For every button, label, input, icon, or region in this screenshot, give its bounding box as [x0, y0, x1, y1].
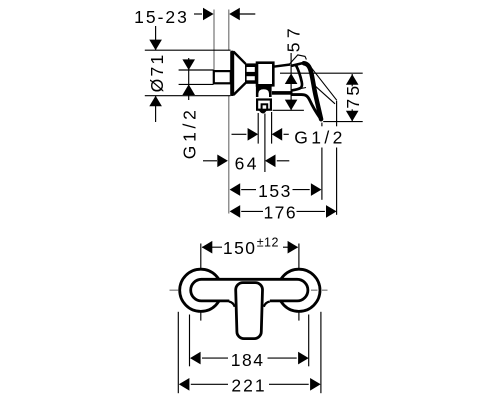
svg-text:75: 75	[343, 83, 363, 109]
svg-text:64: 64	[235, 153, 259, 173]
svg-text:57: 57	[284, 24, 304, 52]
svg-text:15-23: 15-23	[134, 7, 189, 27]
svg-text:G1/2: G1/2	[294, 128, 346, 148]
svg-text:153: 153	[258, 181, 292, 201]
svg-text:150: 150	[223, 238, 257, 258]
svg-text:184: 184	[231, 350, 265, 370]
svg-text:Ø71: Ø71	[147, 52, 167, 92]
svg-text:G1/2: G1/2	[179, 106, 199, 159]
svg-text:176: 176	[263, 202, 297, 222]
svg-text:221: 221	[231, 376, 266, 396]
svg-text:±12: ±12	[257, 236, 279, 250]
